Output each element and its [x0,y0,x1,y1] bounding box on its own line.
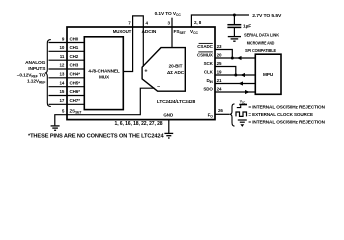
svg-text:CH3: CH3 [70,63,79,68]
svg-text:4-/8-CHANNEL: 4-/8-CHANNEL [88,68,120,73]
brace analog inputs [45,40,51,107]
svg-text:MUX: MUX [99,75,110,80]
wire CH6 pin 15 [49,95,85,97]
svg-text:CH2: CH2 [70,54,79,59]
right pin numbers [217,44,222,92]
svg-text:17: 17 [59,98,64,103]
label analog inputs [17,60,46,85]
svg-text:12: 12 [59,63,64,68]
svg-text:24: 24 [217,87,222,92]
svg-text:ANALOG: ANALOG [25,60,46,66]
top pin labels [113,29,199,35]
arrow into DIN wire [239,81,244,85]
svg-text:CH5*: CH5* [70,80,81,85]
svg-text:SPI COMPATIBLE: SPI COMPATIBLE [245,48,276,53]
wire GND pins to ground [168,120,170,133]
svg-text:CH0: CH0 [70,36,79,41]
wire CH7 pin 17 [49,103,85,105]
svg-text:1µF: 1µF [243,24,251,30]
delta-sigma ADC U1 core pentagon [142,48,185,92]
wire MUXOUT jumper to ADCIN pin 4 [133,16,144,27]
svg-text:26: 26 [218,108,223,113]
wire CSADC pin 23 [215,50,232,59]
wire ZSSET pin 5 to ADC minus input [55,88,155,125]
wire SCK pin 25 [215,67,236,76]
svg-text:MPU: MPU [263,72,274,77]
svg-text:SDO: SDO [203,87,213,92]
svg-text:19: 19 [217,70,222,75]
ground at GND pins [164,133,173,138]
svg-text:11: 11 [60,54,65,59]
svg-text:CSMUX: CSMUX [197,53,213,58]
svg-text:ADCIN: ADCIN [142,29,157,35]
arrow into CS wire [237,56,242,60]
right pin names [197,44,214,92]
wire SDO pin 24 to MPU [215,91,255,93]
svg-text:20-BIT: 20-BIT [169,64,183,69]
svg-text:–0.12VREF TO: –0.12VREF TO [17,72,46,78]
wire DIN pin 21 to MPU [215,83,255,85]
svg-text:21: 21 [217,78,222,83]
svg-text:SERIAL DATA LINK: SERIAL DATA LINK [244,32,280,37]
svg-text:–: – [157,84,160,90]
svg-text:CH7*: CH7* [70,98,81,103]
svg-text:20: 20 [217,53,222,58]
svg-text:2.7V TO 5.5V: 2.7V TO 5.5V [252,13,282,19]
wire CH4 pin 13 [49,77,85,79]
svg-text:= EXTERNAL CLOCK SOURCE: = EXTERNAL CLOCK SOURCE [248,112,313,117]
svg-text:2, 8: 2, 8 [194,20,202,25]
capacitor C1 1uF [233,15,235,24]
svg-text:ΔΣ ADC: ΔΣ ADC [167,70,185,75]
junction node at bypass cap [233,14,236,17]
junction node CLK [234,74,237,77]
svg-text:MUXOUT: MUXOUT [113,29,132,35]
wire FO pin 26 [215,113,229,115]
junction node CS [231,57,234,60]
svg-text:15: 15 [59,89,64,94]
arrow into CLK wire [241,73,246,77]
wire CSMUX pin 20 to MPU [215,57,255,59]
wire MUX output to MUXOUT pin 7 [123,27,132,72]
labels FO options [248,105,325,125]
wire CH0 pin 9 [49,42,85,44]
wire CH1 pin 10 [49,50,85,52]
overbar CSMUX [198,51,213,53]
wire ADCIN to ADC plus input [142,27,144,67]
MPU box [255,54,281,94]
wire CLK pin 19 to MPU [215,74,255,76]
IC U1 LTC2424/LTC2428 outline [67,27,215,120]
wire CH2 pin 11 [49,59,85,61]
4-/8-channel mux block [84,37,123,110]
overbar CSADC [199,42,213,44]
wire CH3 pin 12 [49,68,85,70]
svg-text:10: 10 [59,45,64,50]
svg-text:SCK: SCK [204,61,214,66]
svg-text:GND: GND [163,112,174,117]
svg-text:CH4*: CH4* [70,72,81,77]
svg-text:CH1: CH1 [70,45,79,50]
svg-text:CLK: CLK [204,70,214,75]
svg-text:INPUTS: INPUTS [28,66,46,72]
ground symbol at FO [238,119,247,121]
svg-text:25: 25 [217,61,222,66]
arrow out of SDO wire [245,90,250,94]
svg-text:23: 23 [217,44,222,49]
ground at bypass cap [228,37,241,42]
left pin names CH0-CH7 [70,36,83,114]
svg-text:+: + [144,69,147,75]
svg-text:1, 6, 16, 18, 22, 27, 28: 1, 6, 16, 18, 22, 27, 28 [115,121,163,127]
label serial data link [244,32,280,53]
svg-text:= INTERNAL OSC/50Hz REJECTION: = INTERNAL OSC/50Hz REJECTION [248,105,325,110]
wire VCC pins 2,8 to supply [191,15,249,27]
svg-text:MICROWIRE AND: MICROWIRE AND [247,40,275,45]
ground at ZSSET [51,126,60,130]
svg-text:CSADC: CSADC [197,44,213,49]
svg-text:*THESE PINS ARE NO CONNECTS ON: *THESE PINS ARE NO CONNECTS ON THE LTC24… [28,134,164,140]
svg-text:LTC2424/LTC2428: LTC2424/LTC2428 [157,99,196,104]
wire FSSET stub pin 3 [171,18,173,27]
left pin numbers [59,36,64,113]
svg-text:= INTERNAL OSC/60Hz REJECTION: = INTERNAL OSC/60Hz REJECTION [248,120,325,125]
svg-text:CH6*: CH6* [70,89,81,94]
svg-text:13: 13 [59,72,64,77]
clock source symbol at FO [236,112,247,116]
wire FSSET internal to ADC [171,27,173,48]
svg-text:14: 14 [59,80,64,85]
brace FO options [229,104,234,126]
wire CH5 pin 14 [49,86,85,88]
